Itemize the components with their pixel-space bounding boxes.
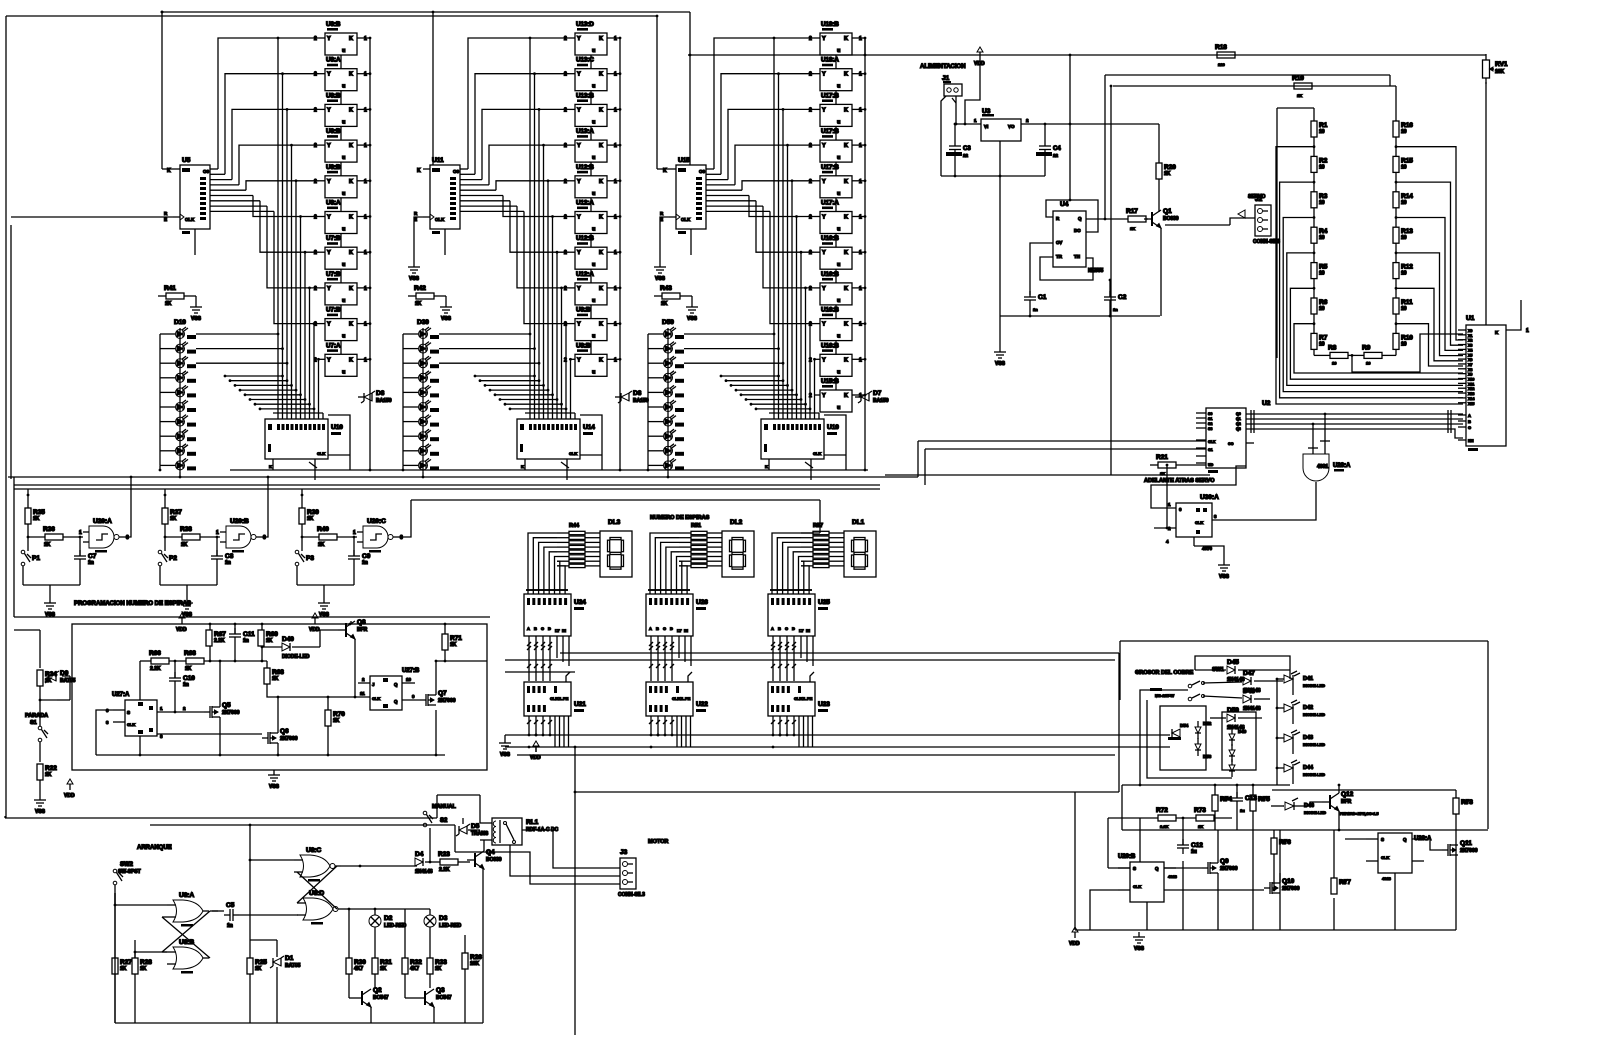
svg-text:1n: 1n (88, 560, 94, 566)
svg-text:K: K (599, 286, 603, 292)
svg-text:R1: R1 (1319, 122, 1328, 129)
svg-text:1: 1 (364, 107, 367, 113)
svg-text:R30: R30 (354, 959, 366, 966)
svg-text:2N7000: 2N7000 (1282, 886, 1300, 892)
svg-text:1K: 1K (170, 516, 177, 522)
svg-text:220: 220 (1218, 62, 1225, 67)
svg-text:D52: D52 (1203, 721, 1212, 726)
svg-text:1K: 1K (1281, 839, 1286, 844)
svg-text:10: 10 (1319, 341, 1325, 347)
svg-text:Q12: Q12 (1341, 791, 1354, 798)
svg-text:u: u (837, 84, 840, 90)
svg-text:D1: D1 (285, 955, 294, 962)
svg-text:R23: R23 (438, 851, 450, 858)
svg-text:K: K (349, 143, 353, 149)
svg-text:1: 1 (364, 250, 367, 256)
svg-text:1K: 1K (272, 676, 279, 682)
svg-text:1K: 1K (266, 638, 273, 644)
svg-text:VSS: VSS (409, 276, 420, 282)
svg-text:11: 11 (360, 691, 365, 696)
svg-text:K: K (599, 143, 603, 149)
svg-text:2200: 2200 (1222, 796, 1232, 801)
svg-text:X6: X6 (1468, 358, 1472, 362)
svg-text:2.2K: 2.2K (214, 638, 225, 644)
svg-text:MANUAL: MANUAL (432, 804, 456, 810)
svg-text:CL: CL (557, 696, 563, 701)
svg-text:Y: Y (327, 72, 331, 78)
svg-text:1n: 1n (183, 682, 189, 688)
svg-text:DIODE-LED: DIODE-LED (282, 654, 310, 660)
svg-text:10: 10 (1319, 164, 1325, 170)
svg-text:VO: VO (1008, 124, 1015, 129)
svg-text:u: u (837, 262, 840, 268)
svg-text:K: K (844, 36, 848, 42)
svg-text:U5: U5 (182, 157, 191, 164)
svg-text:2.2K: 2.2K (150, 666, 161, 672)
svg-text:Y: Y (327, 36, 331, 42)
svg-text:K: K (349, 322, 353, 328)
svg-text:CLK: CLK (1381, 855, 1389, 860)
svg-text:U8:A: U8:A (179, 892, 194, 899)
svg-text:u: u (592, 48, 595, 54)
svg-text:2: 2 (314, 179, 317, 185)
svg-text:R9: R9 (1362, 344, 1371, 351)
svg-text:10: 10 (1319, 235, 1325, 241)
svg-text:R21: R21 (1156, 454, 1168, 461)
svg-text:Y: Y (822, 107, 826, 113)
svg-text:B: B (778, 626, 781, 631)
svg-text:U7:B: U7:B (326, 307, 341, 314)
svg-text:u: u (592, 191, 595, 197)
svg-text:BC639: BC639 (486, 857, 502, 863)
svg-text:1K: 1K (1198, 824, 1203, 829)
svg-text:B: B (1468, 419, 1471, 424)
svg-text:1: 1 (364, 215, 367, 221)
svg-text:R31: R31 (380, 959, 392, 966)
svg-text:1: 1 (859, 36, 862, 42)
svg-text:R11: R11 (1401, 299, 1413, 306)
svg-text:R43: R43 (660, 285, 672, 292)
svg-text:X15: X15 (1468, 402, 1474, 406)
svg-text:U8:A: U8:A (326, 57, 341, 64)
svg-text:2: 2 (314, 286, 317, 292)
svg-text:MOTOR: MOTOR (648, 839, 668, 845)
svg-text:u: u (342, 191, 345, 197)
svg-text:U13:D: U13:D (576, 21, 594, 28)
svg-text:PE: PE (807, 696, 813, 701)
svg-text:Q6: Q6 (280, 728, 289, 735)
svg-text:C1: C1 (1208, 448, 1213, 452)
svg-text:2: 2 (809, 250, 812, 256)
svg-text:VDD: VDD (1069, 941, 1080, 947)
svg-text:2: 2 (809, 107, 812, 113)
svg-text:CLK: CLK (127, 722, 135, 727)
svg-text:K: K (349, 250, 353, 256)
svg-text:R32: R32 (410, 959, 422, 966)
svg-text:R16: R16 (1401, 122, 1413, 129)
svg-text:Y: Y (327, 357, 331, 363)
svg-text:K: K (521, 464, 524, 469)
svg-text:U18:A: U18:A (821, 57, 839, 64)
svg-text:R41: R41 (164, 285, 176, 292)
svg-text:1u: 1u (1240, 808, 1245, 813)
svg-text:CLK: CLK (569, 451, 577, 456)
svg-text:1K: 1K (1341, 879, 1346, 884)
svg-text:u: u (342, 227, 345, 233)
svg-text:2: 2 (564, 72, 567, 78)
svg-text:R70: R70 (333, 711, 345, 718)
svg-text:R67: R67 (214, 631, 226, 638)
svg-text:U12:A: U12:A (576, 200, 594, 207)
svg-text:U3: U3 (982, 108, 991, 115)
svg-text:K: K (844, 357, 848, 363)
svg-text:Q: Q (394, 682, 398, 687)
svg-text:1K: 1K (140, 966, 147, 972)
svg-text:1K: 1K (33, 516, 40, 522)
svg-text:U26: U26 (696, 599, 708, 606)
svg-text:1K: 1K (380, 966, 387, 972)
svg-text:1: 1 (614, 72, 617, 78)
svg-text:2: 2 (564, 215, 567, 221)
svg-text:u: u (342, 119, 345, 125)
svg-text:U25: U25 (818, 599, 830, 606)
svg-text:U16:B: U16:B (821, 307, 839, 314)
svg-text:C7: C7 (88, 553, 97, 560)
svg-text:K: K (844, 179, 848, 185)
svg-text:10: 10 (1366, 360, 1371, 365)
svg-text:4013: 4013 (1168, 874, 1178, 879)
svg-text:Y: Y (822, 72, 826, 78)
svg-text:1n: 1n (1113, 307, 1118, 312)
svg-text:2: 2 (314, 215, 317, 221)
svg-text:D42: D42 (1303, 705, 1313, 711)
svg-text:u: u (837, 155, 840, 161)
svg-text:1: 1 (614, 357, 617, 363)
svg-text:4013: 4013 (1382, 876, 1392, 881)
svg-text:U12:B: U12:B (576, 235, 594, 242)
svg-text:Y: Y (577, 72, 581, 78)
svg-text:C1: C1 (1038, 294, 1047, 301)
svg-text:K: K (599, 72, 603, 78)
svg-text:K: K (349, 36, 353, 42)
svg-text:K: K (599, 107, 603, 113)
svg-text:Q10: Q10 (1282, 878, 1295, 885)
svg-text:CLK: CLK (813, 451, 821, 456)
svg-text:u: u (592, 262, 595, 268)
svg-text:CLK: CLK (185, 217, 195, 222)
svg-text:Y: Y (822, 250, 826, 256)
svg-text:CLK: CLK (435, 217, 445, 222)
svg-text:K: K (765, 464, 768, 469)
svg-text:1: 1 (614, 179, 617, 185)
svg-text:R71: R71 (450, 635, 462, 642)
svg-text:1K: 1K (415, 301, 422, 307)
svg-text:u: u (837, 369, 840, 375)
svg-text:D45: D45 (1227, 659, 1239, 666)
svg-text:U12:A: U12:A (576, 271, 594, 278)
svg-text:1: 1 (614, 143, 617, 149)
svg-text:2N7000: 2N7000 (222, 710, 240, 716)
svg-text:PE: PE (685, 696, 691, 701)
svg-text:S3: S3 (1208, 427, 1212, 431)
svg-text:PARADA: PARADA (25, 713, 48, 719)
svg-text:VSS: VSS (441, 316, 452, 322)
svg-text:Y: Y (577, 179, 581, 185)
svg-text:BA159: BA159 (873, 398, 889, 404)
svg-text:1: 1 (859, 72, 862, 78)
svg-text:2N7000: 2N7000 (280, 736, 298, 742)
svg-text:TRANS: TRANS (471, 831, 489, 837)
svg-text:10K: 10K (470, 961, 480, 967)
svg-text:U16:B: U16:B (821, 271, 839, 278)
svg-text:10: 10 (1319, 200, 1325, 206)
svg-text:R13: R13 (1401, 228, 1413, 235)
svg-text:Q7: Q7 (438, 690, 447, 697)
svg-text:U27:B: U27:B (402, 668, 420, 674)
svg-text:2: 2 (564, 179, 567, 185)
svg-text:Y: Y (577, 357, 581, 363)
svg-text:U8:B: U8:B (326, 164, 341, 171)
svg-text:u: u (342, 334, 345, 340)
svg-text:10: 10 (1401, 341, 1407, 347)
svg-text:1K: 1K (255, 966, 262, 972)
svg-text:ALIMENTACION: ALIMENTACION (920, 64, 966, 70)
svg-text:K: K (349, 215, 353, 221)
svg-text:LT: LT (555, 628, 560, 633)
svg-text:U8:B: U8:B (326, 128, 341, 135)
svg-text:X0: X0 (1468, 329, 1472, 333)
svg-text:J1: J1 (942, 75, 950, 82)
svg-text:3: 3 (126, 535, 129, 541)
svg-text:D8: D8 (633, 390, 642, 397)
svg-text:D44: D44 (1303, 765, 1314, 771)
svg-text:2: 2 (809, 215, 812, 221)
svg-text:PROGRAMACION NUMERO DE ESPIRAS: PROGRAMACION NUMERO DE ESPIRAS (74, 601, 191, 607)
svg-text:R51: R51 (691, 523, 701, 529)
svg-text:U18:B: U18:B (821, 21, 839, 28)
svg-text:2N7000: 2N7000 (1460, 848, 1478, 854)
svg-text:u: u (837, 48, 840, 54)
svg-text:D: D (548, 626, 551, 631)
svg-text:CLK: CLK (1195, 520, 1203, 525)
svg-text:10: 10 (1332, 360, 1337, 365)
svg-text:R66: R66 (149, 650, 161, 657)
svg-text:DC: DC (1074, 228, 1081, 233)
svg-text:Y: Y (577, 107, 581, 113)
svg-text:U13:C: U13:C (576, 57, 594, 64)
svg-text:Q2: Q2 (373, 987, 382, 994)
svg-text:1u: 1u (1191, 849, 1197, 855)
svg-text:S1: S1 (30, 720, 37, 726)
svg-text:D3: D3 (439, 915, 448, 922)
svg-text:VSS: VSS (319, 612, 330, 618)
svg-text:1K: 1K (165, 301, 172, 307)
svg-text:1: 1 (364, 143, 367, 149)
svg-text:U16:B: U16:B (821, 342, 839, 349)
svg-text:1: 1 (353, 530, 356, 536)
svg-text:A: A (1468, 413, 1471, 418)
svg-text:2.2K: 2.2K (439, 867, 450, 873)
svg-text:Q9: Q9 (1220, 858, 1229, 865)
svg-text:1n: 1n (1033, 307, 1038, 312)
svg-text:VDD: VDD (530, 755, 541, 761)
svg-text:D8: D8 (376, 390, 385, 397)
svg-text:2: 2 (809, 72, 812, 78)
svg-text:U8:A: U8:A (326, 200, 341, 207)
svg-text:U21: U21 (574, 701, 586, 708)
svg-text:U1: U1 (1466, 315, 1475, 322)
svg-text:X10: X10 (1468, 378, 1474, 382)
svg-text:TH: TH (1074, 254, 1080, 259)
svg-text:U15: U15 (678, 157, 690, 164)
svg-text:3: 3 (263, 535, 266, 541)
svg-text:u: u (592, 119, 595, 125)
svg-text:K: K (844, 322, 848, 328)
svg-text:DIODE-LED: DIODE-LED (1303, 742, 1325, 747)
svg-text:u: u (592, 227, 595, 233)
svg-text:10: 10 (1401, 235, 1407, 241)
svg-text:DL1: DL1 (852, 519, 865, 526)
svg-text:VSS: VSS (45, 612, 56, 618)
svg-text:K: K (844, 215, 848, 221)
svg-text:2: 2 (564, 286, 567, 292)
svg-text:4K7: 4K7 (410, 966, 419, 972)
svg-text:2: 2 (564, 250, 567, 256)
svg-text:u: u (342, 298, 345, 304)
svg-text:CL: CL (679, 696, 685, 701)
svg-text:R15: R15 (1401, 157, 1413, 164)
svg-text:C4: C4 (1053, 146, 1061, 152)
svg-text:K: K (269, 464, 272, 469)
svg-text:S2: S2 (440, 818, 448, 824)
svg-text:Q11: Q11 (1460, 840, 1472, 847)
svg-text:u: u (592, 334, 595, 340)
svg-text:D54: D54 (1180, 723, 1189, 728)
svg-text:J3: J3 (620, 849, 628, 856)
svg-text:OC: OC (1228, 442, 1234, 446)
svg-text:u: u (837, 298, 840, 304)
svg-text:U13:A: U13:A (576, 128, 594, 135)
svg-text:2: 2 (314, 36, 317, 42)
svg-text:O0: O0 (699, 169, 706, 174)
svg-text:R38: R38 (180, 526, 192, 533)
svg-text:EN: EN (1468, 438, 1474, 443)
svg-text:U27:A: U27:A (112, 692, 130, 698)
svg-text:S2: S2 (1208, 422, 1212, 426)
svg-text:U17:A: U17:A (821, 200, 839, 207)
svg-text:U11: U11 (432, 157, 444, 164)
svg-text:Q3: Q3 (436, 987, 445, 994)
svg-text:4K7: 4K7 (354, 966, 363, 972)
svg-text:X8: X8 (1468, 368, 1472, 372)
svg-text:C: C (785, 626, 788, 631)
svg-text:U7:B: U7:B (326, 271, 341, 278)
svg-text:DIODE-LED: DIODE-LED (1303, 712, 1325, 717)
svg-text:Y: Y (327, 107, 331, 113)
svg-text:D53: D53 (1203, 754, 1212, 759)
svg-text:D7: D7 (873, 390, 882, 397)
svg-text:R5: R5 (1319, 264, 1328, 271)
svg-text:R35: R35 (33, 509, 45, 516)
svg-text:1K: 1K (1297, 93, 1302, 98)
svg-text:VSS: VSS (1219, 574, 1230, 580)
svg-text:BA159: BA159 (376, 398, 392, 404)
svg-text:Q2: Q2 (1236, 422, 1241, 426)
svg-text:Q8: Q8 (357, 619, 366, 626)
svg-text:X13: X13 (1468, 392, 1474, 396)
svg-text:BFR: BFR (1341, 799, 1352, 805)
svg-text:PE: PE (563, 696, 569, 701)
svg-text:CLK: CLK (372, 696, 380, 701)
svg-text:1: 1 (614, 107, 617, 113)
svg-text:C: C (663, 626, 666, 631)
svg-text:VSS: VSS (687, 316, 698, 322)
svg-text:VDD: VDD (176, 627, 187, 633)
svg-text:C5: C5 (226, 902, 235, 909)
svg-text:C10: C10 (183, 675, 195, 682)
svg-text:Q3: Q3 (1236, 427, 1241, 431)
svg-text:D: D (670, 626, 673, 631)
svg-text:1n: 1n (362, 560, 368, 566)
svg-text:1K: 1K (435, 966, 442, 972)
svg-text:K: K (599, 250, 603, 256)
svg-text:DIODE-LED: DIODE-LED (1303, 683, 1325, 688)
svg-text:2: 2 (564, 107, 567, 113)
svg-text:R40: R40 (317, 526, 329, 533)
svg-text:1K: 1K (333, 718, 340, 724)
svg-text:P1: P1 (32, 555, 40, 562)
svg-text:K: K (349, 286, 353, 292)
svg-text:C9: C9 (362, 553, 371, 560)
svg-text:1n: 1n (243, 638, 249, 644)
svg-text:S1: S1 (1208, 417, 1212, 421)
svg-text:VSS: VSS (269, 784, 280, 790)
svg-text:Y: Y (577, 215, 581, 221)
svg-text:B: B (656, 626, 659, 631)
svg-text:VSS: VSS (500, 752, 511, 758)
svg-text:CLK: CLK (317, 451, 325, 456)
svg-text:2: 2 (314, 72, 317, 78)
svg-text:Y: Y (327, 286, 331, 292)
svg-text:1N4148: 1N4148 (1243, 706, 1261, 712)
svg-text:1: 1 (364, 179, 367, 185)
svg-text:1: 1 (364, 72, 367, 78)
svg-text:2: 2 (314, 143, 317, 149)
svg-text:1K: 1K (1463, 799, 1468, 804)
svg-text:U14: U14 (583, 424, 595, 431)
svg-text:R26: R26 (470, 954, 482, 961)
svg-text:K: K (599, 322, 603, 328)
svg-text:U8:B: U8:B (576, 307, 591, 314)
svg-text:DL3: DL3 (608, 519, 621, 526)
svg-text:Y: Y (577, 36, 581, 42)
svg-text:U8:C: U8:C (306, 847, 321, 854)
svg-text:A: A (771, 626, 774, 631)
svg-text:1: 1 (614, 36, 617, 42)
svg-text:K: K (844, 286, 848, 292)
svg-text:Y: Y (822, 143, 826, 149)
svg-text:D59: D59 (662, 319, 674, 326)
svg-text:K: K (599, 179, 603, 185)
svg-text:Y: Y (822, 322, 826, 328)
svg-text:A: A (527, 626, 530, 631)
svg-text:Y: Y (822, 215, 826, 221)
svg-text:BA159: BA159 (633, 398, 649, 404)
svg-text:1K: 1K (1160, 471, 1165, 476)
svg-text:1K: 1K (44, 542, 51, 548)
svg-text:R57: R57 (813, 523, 823, 529)
svg-text:CLK: CLK (1208, 440, 1216, 444)
